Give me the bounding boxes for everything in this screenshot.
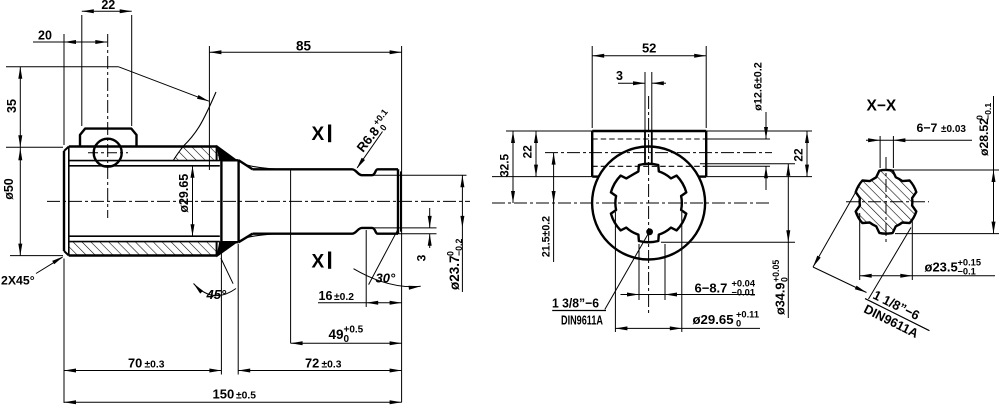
svg-text:22: 22 [521, 145, 535, 159]
svg-text:3: 3 [616, 69, 623, 83]
svg-text:3: 3 [415, 254, 429, 261]
svg-text:ø29.65: ø29.65 [177, 174, 191, 213]
svg-text:6−7: 6−7 [917, 121, 938, 135]
svg-text:16: 16 [319, 289, 333, 303]
svg-text:0: 0 [736, 319, 741, 329]
svg-text:ø34.9: ø34.9 [774, 283, 788, 315]
svg-text:ø50: ø50 [2, 178, 16, 200]
svg-text:DIN9611A: DIN9611A [561, 313, 603, 328]
svg-text:21.5±0.2: 21.5±0.2 [541, 216, 553, 257]
svg-text:35: 35 [5, 99, 19, 113]
svg-text:−0.1: −0.1 [958, 266, 976, 276]
svg-text:X: X [312, 251, 325, 272]
svg-text:±0.03: ±0.03 [941, 124, 966, 135]
svg-text:−0.1: −0.1 [983, 103, 993, 120]
svg-text:22: 22 [792, 148, 806, 162]
svg-text:ø23.5: ø23.5 [925, 259, 958, 274]
svg-text:45°: 45° [206, 287, 227, 302]
svg-text:1 3/8”−6: 1 3/8”−6 [552, 296, 599, 311]
svg-text:22: 22 [101, 0, 115, 12]
svg-text:ø23.7: ø23.7 [447, 255, 462, 290]
svg-text:52: 52 [642, 40, 656, 55]
svg-text:±0.5: ±0.5 [236, 391, 256, 402]
svg-text:−0.2: −0.2 [454, 239, 464, 256]
svg-text:±0.3: ±0.3 [145, 359, 165, 370]
svg-text:0: 0 [780, 277, 790, 282]
svg-text:2X45°: 2X45° [1, 274, 35, 288]
svg-text:85: 85 [296, 39, 312, 54]
svg-text:ø29.65: ø29.65 [693, 312, 734, 327]
svg-text:R6.8: R6.8 [354, 124, 383, 155]
svg-text:6−8.7: 6−8.7 [695, 280, 728, 295]
svg-text:70: 70 [128, 355, 142, 370]
svg-text:0: 0 [344, 334, 350, 345]
svg-text:32.5: 32.5 [498, 153, 512, 176]
svg-text:150: 150 [213, 387, 235, 402]
svg-text:−0.01: −0.01 [732, 287, 756, 297]
svg-text:20: 20 [38, 28, 52, 42]
svg-text:49: 49 [329, 327, 344, 342]
svg-text:ø12.6±0.2: ø12.6±0.2 [753, 62, 765, 111]
svg-text:±0.2: ±0.2 [334, 292, 354, 303]
svg-text:72: 72 [305, 355, 319, 370]
svg-text:ø28.52: ø28.52 [977, 118, 991, 156]
svg-text:X: X [312, 124, 325, 145]
svg-text:X−X: X−X [867, 98, 897, 115]
svg-text:±0.3: ±0.3 [322, 359, 342, 370]
svg-text:30°: 30° [376, 271, 396, 286]
